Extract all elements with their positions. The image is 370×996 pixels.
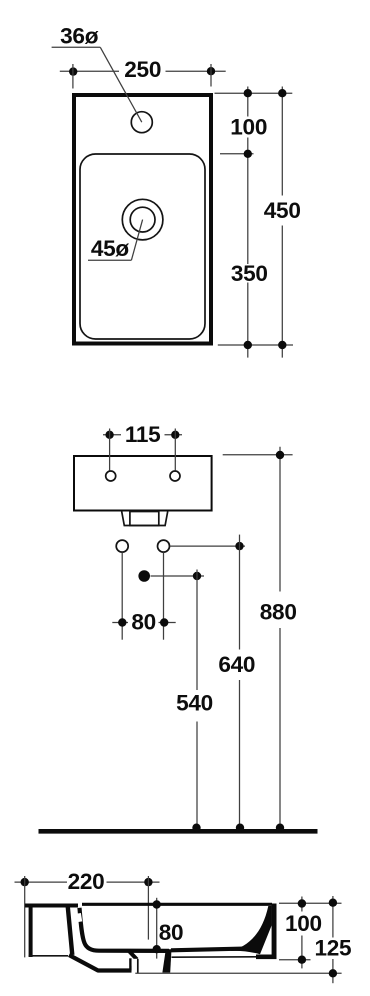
vertical dimension line 125 <box>332 896 334 938</box>
extension line plan bottom <box>218 344 293 346</box>
dot 100 bottom <box>244 150 252 158</box>
extension line basin bottom right <box>279 959 311 961</box>
leader line 45ø to drain <box>131 220 142 261</box>
extension line trap bottom right <box>135 972 341 974</box>
svg-text:45ø: 45ø <box>91 236 130 261</box>
svg-text:250: 250 <box>124 57 161 82</box>
dot side 125 top <box>329 899 337 907</box>
leader line 36ø to faucet hole <box>100 47 142 122</box>
underside thin line right of trap <box>172 956 258 958</box>
extension line from right wall hole <box>170 545 245 547</box>
drain outer circle <box>122 199 163 240</box>
dot 80 right <box>160 618 168 626</box>
svg-text:125: 125 <box>315 936 352 961</box>
pedestal bottom thin line <box>29 955 68 957</box>
dot side 100 bottom <box>298 956 306 964</box>
basin inner bowl rounded rectangle <box>80 154 205 339</box>
outer bottom end cap <box>129 958 131 970</box>
extension line inner bowl top <box>220 153 254 155</box>
dot 220 right <box>144 878 152 886</box>
svg-text:100: 100 <box>230 114 267 139</box>
trap right side slab <box>162 949 171 972</box>
vertical dimension line 450 <box>281 87 283 196</box>
vertical dimension line 880 <box>279 447 281 592</box>
dot side 80 bottom <box>153 945 161 953</box>
svg-text:100: 100 <box>285 911 322 936</box>
svg-text:880: 880 <box>260 599 297 624</box>
front outline rectangle <box>74 456 212 511</box>
leader underline 45ø <box>88 259 131 261</box>
extension line 115 right <box>174 429 176 471</box>
wall hole right circle <box>158 540 170 552</box>
svg-text:220: 220 <box>68 869 105 894</box>
right faucet fixing hole <box>170 471 180 481</box>
dot 450 top <box>278 89 286 97</box>
faucet hole circle <box>131 112 152 133</box>
extension line rim right <box>279 902 342 904</box>
vertical dimension line 100/350 <box>247 87 249 117</box>
wall hole left circle <box>116 540 128 552</box>
dot 250 right <box>207 67 215 75</box>
overflow notch white <box>75 913 83 922</box>
extension line 880 top <box>223 454 293 456</box>
vertical dimension line 640 <box>239 535 241 650</box>
basin outer rectangle <box>74 95 211 344</box>
svg-text:640: 640 <box>218 652 255 677</box>
drain point filled dot <box>138 570 150 582</box>
extension line 80 left <box>121 552 123 639</box>
extension line top right of plan <box>215 92 293 94</box>
dot 220 left <box>21 878 29 886</box>
dimension line 115 <box>103 434 121 436</box>
inner right wall wedge <box>230 906 272 954</box>
left faucet fixing hole <box>106 471 116 481</box>
dimension line 250 <box>60 70 119 72</box>
dot 80 left <box>118 618 126 626</box>
drain inner circle <box>130 207 155 232</box>
vertical dimension line 540 <box>196 570 198 691</box>
dot 115 right <box>171 431 179 439</box>
dimension line 80 <box>112 622 128 624</box>
dot 880 floor <box>276 824 284 832</box>
dimension line 220 <box>15 881 68 883</box>
rim thick section line <box>25 904 78 908</box>
dot 115 left <box>105 431 113 439</box>
dot side 80 top <box>153 900 161 908</box>
vertical dimension line 100 <box>301 897 303 912</box>
svg-text:540: 540 <box>176 691 213 716</box>
dot 540 top <box>193 572 201 580</box>
right wall of basin <box>272 904 277 959</box>
back wall left edge <box>29 904 33 958</box>
dot 880 top <box>276 451 284 459</box>
trap white notch <box>132 959 138 966</box>
bottom bar under right wall <box>256 955 277 960</box>
floor line <box>39 829 318 834</box>
trap left slant <box>129 951 137 960</box>
mid wall slanted section <box>68 907 73 955</box>
svg-text:450: 450 <box>264 198 301 223</box>
svg-text:350: 350 <box>231 261 268 286</box>
dot 640 floor <box>236 824 244 832</box>
trap left wall thin <box>137 959 139 973</box>
extension line 220 right to drain <box>147 876 149 940</box>
extension line 80 right <box>163 552 165 639</box>
drain trap inner rectangle <box>130 512 159 526</box>
basin interior wall and bottom <box>80 908 170 951</box>
dot 350 bottom <box>244 341 252 349</box>
interior bottom right of trap <box>171 948 256 950</box>
svg-text:80: 80 <box>159 920 184 945</box>
outer bottom slant and underside <box>69 955 132 971</box>
svg-text:36ø: 36ø <box>60 24 99 49</box>
dot 450 bottom <box>278 341 286 349</box>
drain trap trapezoid <box>122 512 168 526</box>
dot side 100 top <box>298 899 306 907</box>
dot 640 top <box>235 542 243 550</box>
dot 250 left <box>69 67 77 75</box>
leader underline 36ø <box>52 46 101 48</box>
extension line 220 left <box>24 876 26 957</box>
svg-text:115: 115 <box>125 422 161 447</box>
dot 540 floor <box>192 824 200 832</box>
extension line 250 left <box>72 64 74 89</box>
rim thin far edge line <box>82 903 272 906</box>
svg-text:80: 80 <box>131 609 156 634</box>
extension line 115 left <box>109 429 111 471</box>
dot 100 top <box>244 89 252 97</box>
extension line from drain point <box>151 575 205 577</box>
side dimension line 80 <box>156 898 158 959</box>
dot side 125 bottom <box>329 969 337 977</box>
extension line 250 right <box>210 64 212 87</box>
